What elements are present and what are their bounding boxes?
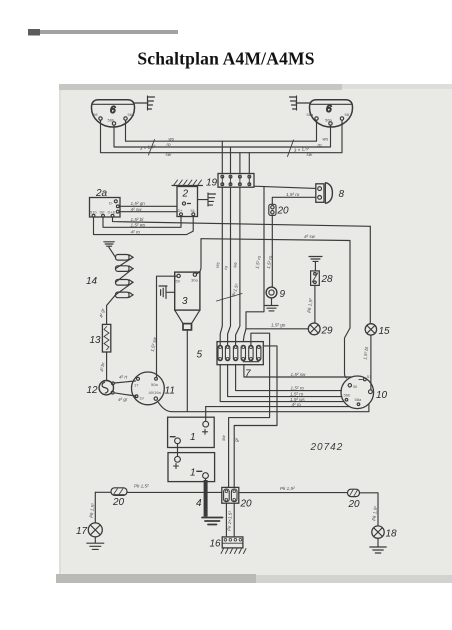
ground (lamp 18) — [370, 538, 387, 553]
svg-text:ws: ws — [323, 137, 329, 142]
svg-text:17: 17 — [76, 526, 88, 537]
fuse 20 (right lamp 18) — [348, 489, 361, 510]
fuse 5 riser and feed to fuse 20 pair (bracket 1) — [229, 333, 270, 487]
wire lamp 15 to switch 10 — [370, 335, 372, 390]
svg-text:Pk 1,5²: Pk 1,5² — [280, 486, 295, 491]
wire node junction to vertical feed — [246, 187, 264, 329]
wire 4 sw (2a to 2) — [119, 211, 177, 213]
svg-text:4² sw: 4² sw — [304, 234, 316, 239]
svg-text:2: 2 — [182, 189, 189, 200]
wire coil 3 terminal 50 to switch 11 — [157, 276, 178, 377]
svg-text:5: 5 — [197, 350, 203, 361]
wire sw (headlamp harness bottom) — [101, 120, 343, 153]
ground (flasher 28) — [309, 257, 322, 271]
svg-text:4² ro: 4² ro — [292, 402, 302, 407]
wire connector 19 to horn 8 — [254, 186, 316, 188]
wire labels harness left — [139, 136, 328, 157]
ground (generator 2) — [198, 193, 216, 206]
svg-text:10: 10 — [376, 390, 388, 401]
svg-text:4² sw: 4² sw — [131, 207, 143, 212]
wire ws (headlamp harness top) — [126, 120, 317, 141]
svg-text:3: 3 — [182, 296, 188, 307]
fuse box 5 / 7 — [197, 342, 264, 380]
wire fuse4 to switch 10 (sw) — [243, 362, 352, 377]
top smudge streak — [28, 30, 178, 34]
fuse 6 feed to fuse 20 pair (bracket 2) — [234, 346, 277, 488]
regulator 2a — [90, 188, 121, 217]
svg-text:D+: D+ — [178, 208, 184, 213]
svg-text:40/19a: 40/19a — [149, 390, 162, 395]
svg-text:16: 16 — [210, 539, 222, 550]
spark plug 12 — [87, 381, 115, 397]
ground (lamp 17) — [87, 537, 104, 550]
ground (coil 3) — [159, 286, 175, 299]
battery 1 (lower) — [168, 453, 215, 482]
svg-text:58a: 58a — [355, 397, 362, 402]
harness slash marks — [149, 140, 294, 157]
wire junction node to fuse 4 — [243, 329, 246, 342]
wire battery to switch 10 (4 ro) — [206, 406, 350, 408]
wire 12 to 11 lower — [114, 393, 136, 396]
svg-text:1,5² ro: 1,5² ro — [286, 192, 300, 197]
svg-text:20: 20 — [240, 499, 253, 510]
connector 16 — [210, 537, 243, 550]
wire fuse to lamp 17 — [94, 492, 96, 523]
svg-text:12: 12 — [87, 385, 99, 396]
svg-text:56b: 56b — [108, 118, 115, 123]
wire HT lead coil 3 down — [186, 330, 188, 412]
lamp 29 — [308, 323, 333, 337]
svg-text:19: 19 — [139, 395, 144, 400]
horn 8 — [316, 183, 345, 204]
wire fuse3 to switch 10 (ro) — [236, 364, 342, 390]
svg-text:D-: D- — [109, 201, 114, 206]
wire lamp 29 feed — [246, 328, 308, 330]
wire bundle headlamps to connector 19 — [222, 141, 249, 173]
bundle slash mark — [217, 294, 243, 302]
wire switch 11 to switch 10 bottom — [158, 402, 369, 411]
headlamp 6 (left) — [92, 100, 135, 127]
suppressor chain 14 — [86, 242, 133, 298]
svg-text:4² gr: 4² gr — [118, 397, 128, 402]
svg-text:6: 6 — [326, 104, 332, 115]
svg-text:20: 20 — [277, 206, 290, 217]
svg-text:Pk 1,5²: Pk 1,5² — [134, 483, 149, 488]
connector strip 19 — [206, 174, 254, 189]
svg-text:20: 20 — [348, 499, 361, 510]
fuse 20 (horn circuit) — [269, 204, 289, 216]
svg-text:Schaltplan A4M/A4MS: Schaltplan A4M/A4MS — [137, 49, 314, 69]
svg-text:2a: 2a — [95, 188, 108, 199]
resistor 13 — [90, 324, 111, 352]
svg-text:7: 7 — [245, 369, 251, 380]
wire battery link — [177, 444, 179, 457]
ignition light switch 11 — [132, 372, 175, 405]
ground (connector 16) — [221, 549, 246, 554]
svg-text:sw: sw — [307, 152, 313, 157]
svg-text:30: 30 — [353, 384, 358, 389]
svg-text:30a: 30a — [191, 278, 198, 283]
svg-text:14: 14 — [86, 276, 98, 287]
wire 1.5 bl (2a to lamp 15) — [113, 217, 371, 226]
svg-text:56a: 56a — [128, 112, 135, 117]
svg-text:6: 6 — [110, 105, 116, 116]
svg-text:58: 58 — [345, 112, 350, 117]
svg-text:57: 57 — [367, 374, 372, 379]
wire 4 sw (ignition coil 3 to switch 10) — [201, 239, 350, 378]
flasher relay 28 — [311, 271, 333, 286]
wire 12 to 11 upper — [114, 381, 135, 383]
ground (socket 9) — [265, 298, 278, 311]
wire battery plus riser — [205, 407, 207, 422]
ignition coil 3 — [175, 272, 200, 330]
battery 1 (upper) — [168, 417, 215, 447]
ground (right headlamp) — [290, 96, 310, 110]
wire 1.5 gn (2a to 2) — [119, 205, 177, 207]
svg-text:20742: 20742 — [310, 442, 344, 453]
svg-text:4² ro: 4² ro — [131, 230, 141, 235]
svg-text:1,5² go: 1,5² go — [271, 323, 286, 328]
svg-text:13: 13 — [90, 335, 102, 346]
svg-text:1,5² gn: 1,5² gn — [131, 201, 146, 206]
lamp 18 — [372, 526, 397, 540]
socket 9 — [266, 287, 285, 300]
svg-text:11: 11 — [165, 386, 175, 397]
svg-text:DF: DF — [100, 210, 106, 215]
wire fuse1 to switch 10 (ws) — [220, 364, 343, 401]
lamp 15 — [365, 324, 390, 337]
wire fuse 20 to socket 9 — [271, 215, 273, 287]
svg-text:8: 8 — [339, 189, 345, 200]
ground (left headlamp) — [135, 96, 155, 110]
svg-text:ro: ro — [167, 142, 172, 147]
svg-text:29: 29 — [321, 326, 334, 337]
svg-text:56a: 56a — [307, 112, 314, 117]
svg-text:50a: 50a — [151, 382, 158, 387]
svg-text:ws: ws — [169, 136, 175, 141]
svg-text:19: 19 — [206, 178, 218, 189]
ground strap 4 — [196, 479, 223, 525]
svg-text:17: 17 — [134, 383, 139, 388]
svg-text:51b: 51b — [90, 210, 97, 215]
lamp 17 — [76, 523, 102, 537]
wire ro (headlamp harness mid) — [114, 125, 331, 147]
svg-text:50: 50 — [176, 279, 181, 284]
wire 1.5 ws (2a to generator 51) — [103, 216, 181, 228]
svg-text:20: 20 — [112, 497, 125, 508]
svg-text:1: 1 — [190, 468, 196, 479]
svg-text:sw: sw — [166, 152, 172, 157]
wire bundle 19 to fuse box 5 — [220, 187, 240, 345]
wire fuse2 to switch 10 (ro) — [228, 364, 342, 396]
svg-text:9: 9 — [280, 289, 286, 300]
svg-text:15: 15 — [379, 326, 391, 337]
wire horn to fuse 20 — [272, 197, 316, 204]
svg-text:56b: 56b — [325, 118, 332, 123]
svg-text:1,5² ws: 1,5² ws — [131, 222, 147, 227]
svg-text:18: 18 — [386, 529, 398, 540]
wire 28 to lamp 29 — [314, 285, 316, 323]
switch 10 (brake/tail) — [341, 374, 388, 409]
svg-text:58: 58 — [93, 112, 98, 117]
generator 2 — [172, 180, 203, 217]
headlamp 6 (right) — [307, 100, 353, 127]
wire chain 14 to resistor 13 — [107, 295, 116, 325]
svg-text:1: 1 — [190, 432, 196, 443]
svg-text:ro: ro — [318, 143, 323, 148]
wire tail light circuit (long bottom run) — [95, 492, 378, 526]
wire bl vertical to lamp 15 — [369, 226, 371, 323]
svg-text:4² rt: 4² rt — [119, 375, 128, 380]
svg-text:56b: 56b — [344, 393, 351, 398]
svg-text:28: 28 — [321, 274, 334, 285]
wire 4 ro (2a to generator D+) — [94, 216, 194, 235]
svg-text:1,5² sw: 1,5² sw — [291, 372, 306, 377]
svg-text:4: 4 — [196, 498, 202, 509]
svg-text:D+61: D+61 — [108, 210, 118, 215]
scan paper area — [59, 84, 452, 583]
wire fuse pair to connector 16 — [226, 503, 234, 537]
fuse pair 20 (battery circuits) — [222, 487, 252, 509]
svg-text:1,5² bl: 1,5² bl — [131, 217, 145, 222]
svg-text:51: 51 — [191, 208, 196, 213]
wire resistor 13 to spark plug 12 — [106, 352, 108, 381]
svg-text:1,5² ro: 1,5² ro — [291, 386, 305, 391]
fuse 20 (left lamp 17) — [111, 488, 127, 508]
